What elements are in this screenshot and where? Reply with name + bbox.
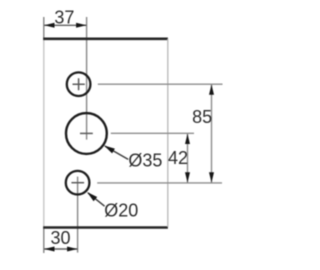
- svg-text:Ø20: Ø20: [104, 200, 138, 220]
- arrow bottom of 85: [209, 172, 214, 182]
- cross top hole: [73, 78, 85, 90]
- arrow bottom of 42: [185, 172, 190, 182]
- plate bottom edge: [43, 226, 168, 229]
- arrow left of 30: [44, 247, 54, 252]
- cross bottom hole: [71, 182, 84, 184]
- extension line from top hole center: [98, 83, 223, 85]
- cross big hole: [80, 132, 93, 134]
- hole top small circle: [67, 72, 91, 96]
- arrow top of 85: [209, 85, 214, 95]
- plate top edge: [43, 37, 168, 40]
- arrow right of 30: [67, 247, 77, 252]
- svg-text:30: 30: [50, 228, 70, 248]
- hole bottom small circle: [66, 171, 90, 195]
- hole big circle: [66, 113, 107, 154]
- centerline bottom hole / extension of 30 dim: [77, 177, 79, 253]
- leader line for Ø20: [88, 193, 105, 206]
- leader arrow Ø20: [87, 192, 97, 201]
- leader arrow Ø35: [104, 146, 115, 154]
- centerline big hole / extension of 37 dim: [86, 17, 88, 140]
- svg-text:42: 42: [168, 148, 188, 168]
- arrow left of 37: [44, 23, 54, 28]
- plate left edge: [43, 39, 45, 227]
- svg-text:Ø35: Ø35: [128, 151, 162, 171]
- extension line below plate left edge: [43, 227, 45, 253]
- plate right edge: [167, 39, 169, 227]
- dimension 42 line: [187, 134, 189, 183]
- extension line from big hole center: [111, 132, 194, 134]
- arrow right of 37: [76, 23, 86, 28]
- dimension 30 line: [44, 248, 78, 250]
- extension line above plate left edge: [43, 17, 45, 39]
- svg-text:85: 85: [192, 107, 212, 127]
- arrow top of 42: [185, 134, 190, 144]
- dimension 37 line: [44, 24, 87, 26]
- leader line for Ø35: [105, 146, 128, 159]
- extension line from bottom hole center: [97, 182, 222, 184]
- dimension 85 line: [211, 84, 213, 182]
- svg-text:37: 37: [54, 8, 74, 28]
